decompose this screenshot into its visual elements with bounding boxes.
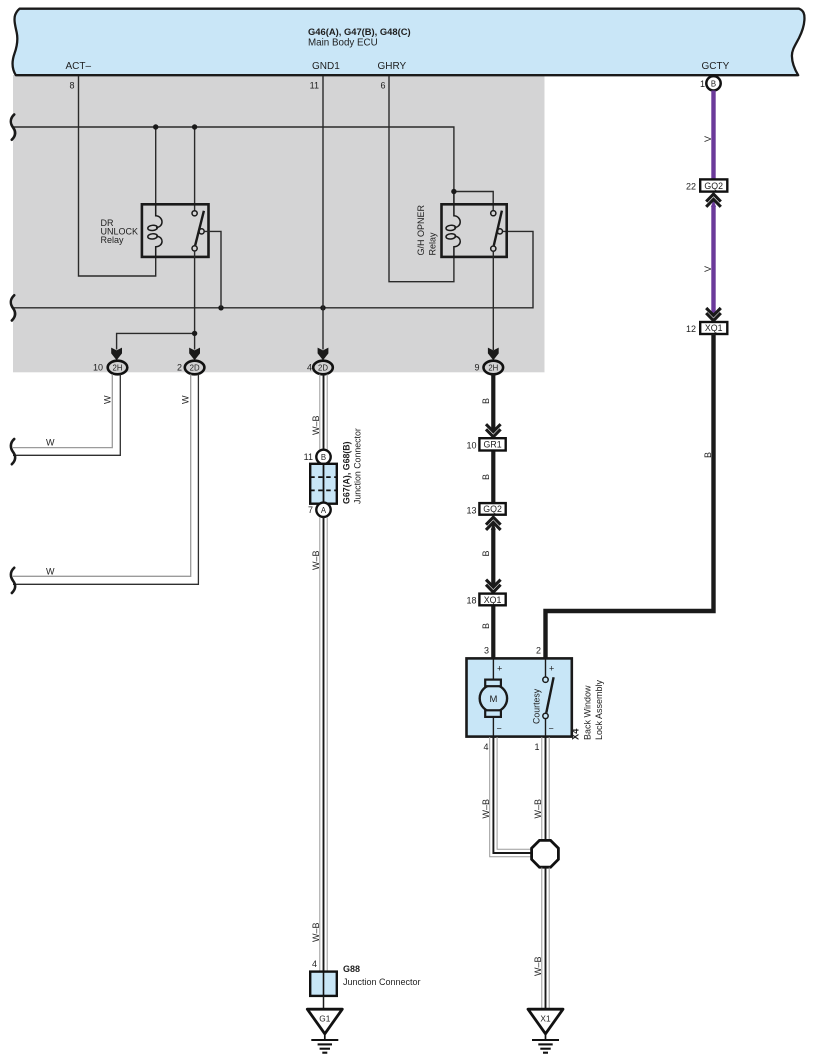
wire internal bus line A: [13, 127, 454, 192]
svg-text:XQ1: XQ1: [484, 595, 502, 605]
svg-text:W–B: W–B: [311, 550, 321, 570]
svg-text:Back Window: Back Window: [583, 685, 593, 740]
junction dot: [218, 305, 223, 310]
wire DR switch output to line B: [204, 231, 221, 307]
svg-text:2: 2: [177, 363, 182, 373]
ECU internal circuitry shaded area: [13, 75, 545, 372]
wire line A to DR coil: [155, 127, 157, 204]
svg-text:G1: G1: [319, 1013, 330, 1023]
svg-text:W: W: [46, 567, 55, 577]
wire line A to DR switch contact: [194, 127, 196, 211]
label G/H OPNER Relay: [416, 204, 438, 255]
connector 2D pin 2: [185, 361, 205, 375]
thick wire B from pin 9 to GR1: [491, 374, 495, 429]
junction connector terminal A: [316, 503, 330, 517]
arrow into pin 4: [318, 348, 329, 361]
svg-text:W–B: W–B: [481, 799, 491, 819]
thick wire B from GR1 to GQ2: [491, 451, 495, 504]
label DR UNLOCK Relay: [101, 218, 139, 245]
switch of G/H relay: [491, 211, 503, 252]
svg-text:G/H OPNER: G/H OPNER: [416, 204, 426, 255]
svg-text:W–B: W–B: [311, 415, 321, 435]
wire ACT- pin 8 to DR relay coil: [79, 76, 156, 276]
arrow chevrons into XQ1: [486, 580, 501, 593]
arrow chevrons into GQ2: [486, 517, 501, 530]
junction connector G67(A), G68(B) body: [310, 464, 337, 504]
junction dot: [320, 305, 325, 310]
svg-text:B: B: [481, 474, 491, 480]
arrow into pin 2: [189, 348, 200, 361]
svg-text:W: W: [181, 395, 191, 404]
thick wire B from XQ1 to X4 pin 2: [546, 334, 714, 658]
coil of DR relay: [148, 204, 162, 257]
svg-text:6: 6: [380, 81, 385, 91]
svg-text:Courtesy: Courtesy: [532, 688, 542, 724]
svg-text:GQ2: GQ2: [704, 181, 723, 191]
svg-text:Main Body ECU: Main Body ECU: [308, 37, 378, 48]
svg-text:1: 1: [534, 742, 539, 752]
connector GR1 pin 10: [479, 438, 505, 450]
junction connector G88: [310, 972, 337, 996]
wire V from GCTY to GQ2: [711, 91, 715, 180]
splice octagon: [532, 840, 559, 867]
svg-text:−: −: [549, 724, 554, 734]
svg-text:+: +: [497, 664, 502, 674]
wire X4 pin 2 to courtesy switch: [545, 658, 547, 677]
svg-text:V: V: [703, 266, 713, 272]
svg-text:GR1: GR1: [484, 440, 502, 450]
wire courtesy switch to X4 pin 1: [545, 719, 547, 737]
svg-text:W–B: W–B: [311, 922, 321, 942]
svg-text:G88: G88: [343, 964, 360, 974]
component X4 Back Window Lock Assembly box: [467, 658, 572, 736]
svg-text:2H: 2H: [488, 363, 498, 372]
svg-text:XQ1: XQ1: [705, 323, 723, 333]
relay K1 DR UNLOCK Relay box: [142, 204, 209, 257]
wire W-B from X4 pin 4 to splice: [490, 737, 532, 857]
svg-text:11: 11: [304, 452, 313, 462]
svg-text:G46(A), G47(B), G48(C): G46(A), G47(B), G48(C): [308, 26, 411, 37]
wire W-B from terminal A to G88: [320, 517, 327, 972]
svg-text:B: B: [481, 550, 491, 556]
arrow chevrons into GR1: [486, 424, 501, 437]
svg-text:G67(A), G68(B): G67(A), G68(B): [342, 441, 352, 504]
courtesy switch: [543, 677, 554, 719]
svg-text:22: 22: [686, 182, 696, 192]
thick wire B from XQ1 to X4 pin 3: [491, 605, 495, 658]
svg-text:12: 12: [686, 324, 696, 334]
svg-text:W: W: [46, 438, 55, 448]
wire G88 to ground G1: [323, 996, 325, 1009]
connector terminal B of GCTY: [706, 76, 720, 90]
connector 2D pin 4: [313, 361, 333, 375]
svg-text:2H: 2H: [113, 363, 123, 372]
svg-text:GQ2: GQ2: [483, 504, 502, 514]
svg-text:3: 3: [484, 646, 489, 656]
arrow chevrons into XQ1: [706, 308, 721, 321]
wire G/H coil node to switch contact: [454, 192, 493, 211]
svg-text:2: 2: [536, 646, 541, 656]
wire GHRY pin 6 to G/H relay coil: [389, 76, 454, 282]
svg-text:+: +: [549, 664, 554, 674]
connector band U1 Main Body ECU: [13, 9, 805, 76]
wire V from GQ2 to XQ1: [711, 206, 715, 313]
svg-text:B: B: [481, 398, 491, 404]
svg-text:11: 11: [310, 81, 319, 91]
switch of DR relay: [192, 211, 204, 251]
junction connector G67(A), G68(B) terminal B: [316, 450, 330, 464]
svg-text:1: 1: [700, 79, 705, 89]
connector XQ1 pin 18: [479, 594, 505, 606]
svg-text:2D: 2D: [190, 363, 200, 372]
svg-text:X4: X4: [571, 728, 581, 740]
connector 2H pin 9: [484, 361, 504, 375]
svg-text:13: 13: [466, 506, 476, 516]
svg-text:ACT–: ACT–: [66, 61, 92, 72]
svg-text:B: B: [481, 623, 491, 629]
relay K2 G/H OPNER Relay box: [442, 204, 507, 257]
svg-text:10: 10: [466, 441, 476, 451]
connector 2H pin 10: [108, 361, 128, 375]
svg-text:−: −: [497, 724, 502, 734]
arrow into pin 9: [488, 348, 499, 361]
svg-text:M: M: [489, 694, 497, 705]
break symbol on line A: [11, 115, 15, 140]
svg-text:Junction Connector: Junction Connector: [353, 428, 363, 504]
svg-text:Relay: Relay: [101, 235, 125, 245]
wire DR switch lower contact to pins 2 and 10: [117, 251, 195, 350]
svg-text:Lock Assembly: Lock Assembly: [594, 679, 604, 740]
wire W-B from X4 pin 1 to splice: [542, 737, 549, 841]
break symbol on W wire: [11, 439, 15, 464]
svg-text:4: 4: [312, 959, 317, 969]
svg-text:18: 18: [466, 596, 476, 606]
svg-text:7: 7: [308, 505, 313, 515]
svg-text:4: 4: [307, 363, 312, 373]
ground G1: [307, 1009, 342, 1052]
wire G/H switch lower contact to pin 9: [492, 251, 494, 350]
svg-text:W–B: W–B: [533, 956, 543, 976]
svg-text:GHRY: GHRY: [378, 61, 407, 72]
break symbol on W wire: [11, 568, 15, 593]
motor M: [480, 680, 507, 717]
svg-text:W–B: W–B: [533, 799, 543, 819]
arrow chevrons into GQ2: [706, 194, 721, 207]
connector GQ2 pin 13: [479, 503, 505, 515]
wire W-B from pin 4 to junction connector: [320, 374, 327, 450]
wire GND1 pin 11 to pin 4 connector: [322, 76, 324, 350]
svg-text:A: A: [321, 506, 327, 515]
svg-text:8: 8: [69, 81, 74, 91]
svg-text:GCTY: GCTY: [702, 61, 730, 72]
svg-text:B: B: [703, 452, 713, 458]
svg-text:Relay: Relay: [428, 232, 438, 256]
ground X1: [528, 1009, 563, 1052]
svg-text:GND1: GND1: [312, 61, 340, 72]
connector XQ1 pin 12: [700, 322, 727, 334]
svg-text:W: W: [103, 395, 113, 404]
junction dot: [451, 189, 456, 194]
junction dot: [192, 124, 197, 129]
svg-text:V: V: [703, 136, 713, 142]
svg-text:4: 4: [483, 742, 488, 752]
arrow into pin 10: [111, 348, 122, 361]
connector GQ2 pin 22: [700, 179, 727, 191]
svg-text:B: B: [711, 79, 716, 88]
svg-text:10: 10: [93, 363, 103, 373]
junction dot: [153, 124, 158, 129]
junction dot: [192, 331, 197, 336]
break symbol on line B: [11, 295, 15, 320]
wire W from pin 2: [13, 374, 198, 584]
svg-text:Junction Connector: Junction Connector: [343, 977, 421, 987]
wire X4 pin 3 to motor: [492, 658, 494, 680]
svg-text:B: B: [321, 453, 326, 462]
svg-text:9: 9: [474, 363, 479, 373]
coil of G/H relay: [446, 194, 460, 257]
wire motor to X4 pin 4: [492, 717, 494, 737]
svg-text:2D: 2D: [318, 363, 328, 372]
wire W-B from splice to ground X1: [542, 868, 549, 1010]
svg-text:X1: X1: [540, 1013, 551, 1023]
wire internal bus line B: [13, 231, 533, 307]
thick wire B from GQ2 to XQ1: [491, 529, 495, 584]
wire W from pin 10: [13, 374, 120, 455]
